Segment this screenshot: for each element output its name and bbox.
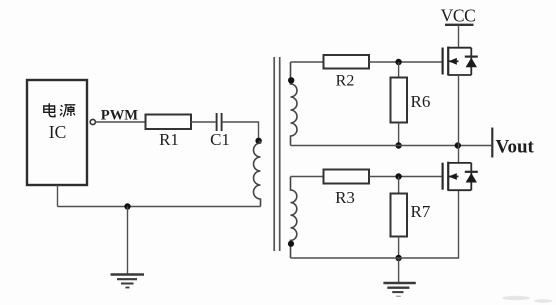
wire secondary bottom to R3 bbox=[291, 176, 324, 178]
ground left bbox=[111, 275, 145, 288]
diode Q1 body diode bbox=[465, 57, 478, 68]
resistor R3 bbox=[324, 170, 370, 184]
wire R3 to gate Q2 bbox=[369, 176, 443, 178]
svg-text:R7: R7 bbox=[411, 202, 431, 221]
wire PWM to R1 bbox=[95, 121, 145, 123]
label 电 bbox=[44, 103, 55, 116]
inductor secondary bottom winding bbox=[291, 177, 297, 259]
svg-text:R3: R3 bbox=[335, 188, 355, 207]
svg-text:PWM: PWM bbox=[101, 108, 139, 124]
wire IC bottom drop bbox=[57, 185, 59, 207]
wire Q1 source down bbox=[458, 75, 460, 146]
node Q1 source junction bbox=[455, 142, 461, 148]
node R7 top junction bbox=[395, 173, 401, 179]
node secondary top dot bbox=[288, 77, 294, 83]
transistor Q2 bottom MOSFET bbox=[443, 162, 472, 191]
svg-text:R2: R2 bbox=[336, 72, 355, 89]
node ground junction bbox=[124, 203, 130, 209]
inductor primary winding bbox=[254, 141, 261, 207]
svg-text:VCC: VCC bbox=[441, 5, 476, 25]
wire bottom rail bbox=[291, 190, 459, 258]
wire C1 to transformer primary top bbox=[223, 122, 259, 141]
faint artifact bottom right bbox=[502, 296, 552, 303]
resistor R7 bbox=[391, 194, 408, 237]
wire R7 bottom bbox=[398, 237, 400, 259]
svg-text:R1: R1 bbox=[159, 130, 179, 149]
wire R1 to C1 bbox=[191, 121, 216, 123]
op-amp U1 : power IC box 电源IC bbox=[27, 80, 87, 185]
transistor Q1 top MOSFET bbox=[443, 47, 472, 76]
terminal Vout bar bbox=[491, 128, 493, 158]
inductor secondary top winding bbox=[291, 62, 298, 146]
wire junction to R7 bbox=[398, 177, 400, 194]
wire R2 to gate Q1 bbox=[369, 61, 443, 63]
wire primary bottom return bbox=[58, 206, 261, 208]
resistor R2 bbox=[324, 55, 370, 69]
transformer core bbox=[274, 57, 280, 251]
node R6 top junction bbox=[395, 59, 401, 65]
resistor R6 bbox=[391, 78, 408, 123]
resistor R1 bbox=[146, 115, 192, 130]
wire R6 to Vout rail bbox=[398, 123, 400, 146]
wire junction to ground bbox=[127, 207, 129, 275]
node R7 bottom junction bbox=[395, 255, 401, 261]
pin PWM terminal circle bbox=[90, 119, 95, 124]
wire secondary top to R2 bbox=[291, 61, 324, 63]
svg-text:R6: R6 bbox=[411, 92, 431, 111]
wire junction to R6 bbox=[398, 62, 400, 78]
wire source rail to Vout bbox=[291, 145, 492, 147]
wire Q1 source to Q2 drain bbox=[458, 146, 460, 163]
svg-text:IC: IC bbox=[49, 122, 67, 142]
node secondary bottom dot bbox=[288, 241, 294, 247]
label 源 bbox=[60, 105, 75, 117]
power VCC terminal bar bbox=[445, 24, 474, 26]
ground right bbox=[383, 283, 415, 296]
node R6 bottom junction bbox=[395, 142, 401, 148]
node primary dot bbox=[255, 138, 261, 144]
wire VCC to Q1 drain bbox=[458, 25, 460, 48]
diode Q2 body diode bbox=[465, 172, 478, 183]
svg-text:Vout: Vout bbox=[496, 137, 535, 158]
capacitor C1 bbox=[217, 113, 222, 131]
wire right ground drop bbox=[398, 258, 400, 283]
svg-text:C1: C1 bbox=[210, 130, 230, 149]
